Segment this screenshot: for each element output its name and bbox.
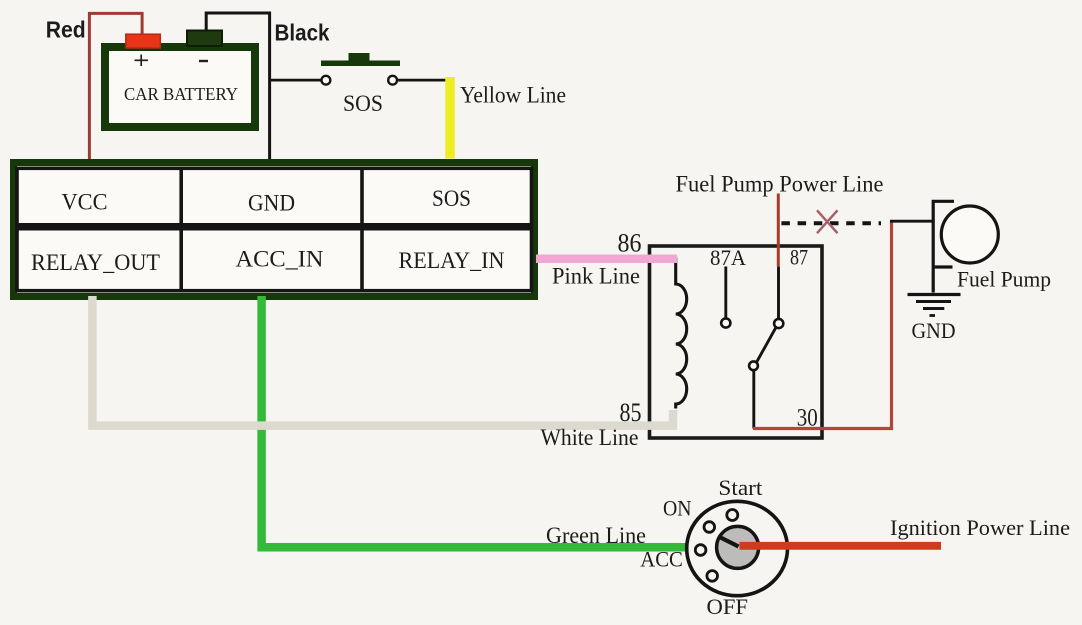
svg-text:CAR BATTERY: CAR BATTERY [124,84,238,104]
svg-text:Ignition Power Line: Ignition Power Line [890,515,1070,540]
svg-text:Green Line: Green Line [546,523,646,548]
svg-text:Fuel Pump: Fuel Pump [957,267,1051,292]
svg-text:VCC: VCC [62,190,108,215]
svg-text:Red: Red [46,17,86,43]
svg-text:ON: ON [663,496,692,521]
svg-text:RELAY_OUT: RELAY_OUT [31,250,160,275]
svg-text:OFF: OFF [707,594,749,619]
svg-text:White Line: White Line [541,425,639,450]
svg-text:SOS: SOS [343,91,383,116]
svg-text:GND: GND [912,318,956,343]
svg-text:Fuel Pump Power Line: Fuel Pump Power Line [676,172,884,197]
svg-text:Start: Start [718,475,762,500]
svg-text:SOS: SOS [432,186,471,211]
svg-text:87: 87 [790,245,808,270]
svg-text:GND: GND [248,191,295,216]
svg-text:86: 86 [618,229,642,258]
svg-text:ACC_IN: ACC_IN [236,247,324,272]
svg-text:Yellow Line: Yellow Line [460,83,566,108]
svg-text:85: 85 [620,398,642,427]
svg-text:ACC: ACC [640,547,683,572]
svg-text:87A: 87A [710,245,746,270]
svg-text:RELAY_IN: RELAY_IN [399,248,505,273]
svg-text:Black: Black [275,20,330,46]
svg-text:Pink Line: Pink Line [552,264,640,289]
